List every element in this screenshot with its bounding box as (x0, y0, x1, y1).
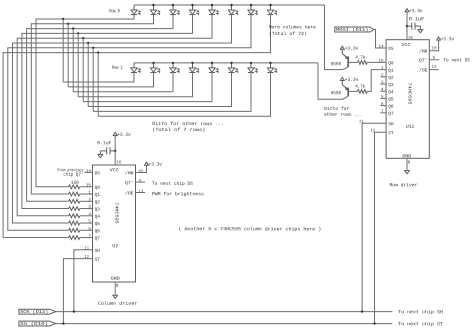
svg-text:( Another 8 x 74HC595 column d: ( Another 8 x 74HC595 column driver chip… (178, 226, 321, 232)
junction col 6 row0/row1 tie (92, 47, 94, 49)
wire resistor to U2 Q7 (80, 237, 93, 239)
svg-text:Row 0: Row 0 (109, 8, 120, 14)
wire row 1 col 0 cathode step (63, 73, 134, 83)
wire row 1 bus drop to transistor Q2 collector (318, 63, 348, 99)
svg-text:Q0: Q0 (95, 185, 101, 191)
wire resistor to U2 Q6 (80, 229, 93, 231)
wire col 0 vertical to row 1 (62, 19, 64, 82)
wire col 7 vertical to row 1 (97, 53, 99, 117)
junction row 0 bus (211, 4, 213, 6)
power +3.3v U11 MR (437, 37, 441, 40)
svg-text:4.7k: 4.7k (355, 55, 365, 61)
svg-text:4.7k: 4.7k (355, 84, 365, 90)
junction U11 ST on SS (373, 322, 375, 324)
LED D3 row 0 col 2 (172, 5, 174, 10)
resistor R1 150 (69, 185, 80, 189)
svg-text:Q5: Q5 (388, 96, 394, 102)
wire resistor to U2 Q2 (80, 200, 93, 202)
wire col 6 vertical to row 1 (92, 48, 94, 112)
resistor R2 150 (69, 192, 80, 196)
LED D16 row 1 col 7 (270, 63, 272, 68)
wire row 0 col 1 cathode step (31, 15, 153, 194)
wire MOSI to U11 DS (374, 30, 387, 49)
svg-text:/MR: /MR (125, 170, 134, 176)
wire 4.7k to U11 Q0 (367, 61, 386, 63)
svg-text:Q0: Q0 (388, 60, 394, 66)
ground U11 (405, 171, 410, 174)
junction col 0 row0/row1 tie (62, 18, 64, 20)
wire row 1 col 5 cathode step (88, 73, 231, 107)
resistor R9 4.7k (358, 61, 368, 65)
svg-text:+3.3v: +3.3v (345, 46, 359, 52)
svg-text:Q7': Q7' (125, 180, 134, 186)
resistor R7 150 (69, 228, 80, 232)
wire row 1 anode bus (134, 62, 318, 64)
LED D6 row 0 col 5 (231, 5, 233, 10)
wire U11 ST to SS bus (375, 132, 387, 323)
svg-text:ST: ST (388, 130, 394, 136)
svg-text:Q6: Q6 (95, 228, 101, 234)
svg-text:Q3: Q3 (388, 82, 394, 88)
power +3.3v U11 VCC (405, 9, 409, 12)
svg-text:Q1: Q1 (95, 192, 101, 198)
junction row 1 bus (269, 62, 271, 64)
svg-text:Row driver: Row driver (389, 182, 417, 188)
LED D15 row 1 col 6 (250, 63, 252, 68)
junction col 2 row0/row1 tie (72, 27, 74, 29)
svg-text:U2: U2 (112, 243, 118, 249)
svg-text:16: 16 (116, 161, 122, 165)
svg-text:Column driver: Column driver (98, 301, 138, 307)
svg-text:Q3: Q3 (95, 207, 101, 213)
resistor R8 150 (69, 236, 80, 240)
junction row 0 bus (152, 4, 154, 6)
wire row 0 col 4 cathode step (17, 15, 212, 216)
svg-text:15: 15 (378, 60, 384, 64)
svg-text:ST: ST (95, 257, 101, 263)
wire row 0 col 6 cathode step (8, 15, 251, 231)
LED D9 row 1 col 0 (133, 63, 135, 68)
LED D10 row 1 col 1 (153, 63, 155, 68)
LED D12 row 1 col 3 (192, 63, 194, 68)
LED D5 row 0 col 4 (211, 5, 213, 10)
svg-text:To next chip SH: To next chip SH (398, 309, 443, 315)
wire row 0 col 5 cathode step (13, 15, 232, 223)
wire T2 base (348, 90, 357, 92)
resistor R5 150 (69, 214, 80, 218)
junction row 1 bus (172, 62, 174, 64)
svg-text:Q7: Q7 (388, 111, 394, 117)
svg-text:chip Q7': chip Q7' (63, 172, 83, 178)
svg-text:8550: 8550 (331, 61, 342, 67)
junction col 3 row0/row1 tie (77, 32, 79, 34)
svg-text:DS: DS (388, 46, 394, 52)
U2 pin 16 VCC (114, 136, 116, 165)
svg-text:+3.3v: +3.3v (117, 132, 131, 138)
LED D4 row 0 col 3 (192, 5, 194, 10)
junction row 0 bus (191, 4, 193, 6)
svg-text:(Total of 72): (Total of 72) (269, 31, 307, 37)
svg-text:GND: GND (111, 276, 120, 282)
svg-text:Q1: Q1 (388, 68, 394, 74)
svg-text:14: 14 (378, 45, 384, 49)
junction U2 ST on SS (62, 322, 64, 324)
svg-text:VCC: VCC (401, 42, 410, 48)
op-amp U11 74HC595 row driver box (386, 40, 429, 159)
junction U2 SH on SCK (73, 310, 75, 312)
svg-text:/OE: /OE (419, 67, 428, 73)
ground U2 (113, 295, 118, 298)
svg-text:To next DS: To next DS (443, 57, 470, 63)
wire resistor to U2 Q1 (80, 193, 93, 195)
svg-text:+3.3v: +3.3v (345, 77, 359, 83)
wire U11 SH to SCK bus (362, 123, 386, 311)
svg-text:0.1uF: 0.1uF (97, 140, 111, 146)
svg-text:SH: SH (95, 248, 101, 254)
svg-text:Q4: Q4 (95, 214, 101, 220)
svg-text:8550: 8550 (331, 90, 342, 96)
svg-text:+3.3v: +3.3v (409, 8, 423, 14)
svg-text:11: 11 (84, 247, 90, 251)
svg-text:11: 11 (359, 120, 365, 124)
svg-text:Q4: Q4 (388, 89, 394, 95)
wire row 1 col 2 cathode step (73, 73, 173, 92)
LED D8 row 0 col 7 (270, 5, 272, 10)
junction row 0 bus (172, 4, 174, 6)
svg-text:74HC595: 74HC595 (114, 202, 120, 224)
svg-text:Q7: Q7 (95, 236, 101, 242)
svg-text:To next chip ST: To next chip ST (398, 321, 443, 327)
svg-text:/OE: /OE (125, 190, 134, 196)
svg-text:16: 16 (408, 37, 414, 41)
wire row 0 col 7 cathode step (3, 15, 270, 238)
svg-text:More columns here: More columns here (269, 24, 316, 30)
svg-text:+3.3v: +3.3v (441, 36, 455, 42)
svg-text:SH: SH (388, 121, 394, 127)
junction row 1 bus (250, 62, 252, 64)
junction U11 vcc cap (406, 25, 408, 27)
LED D2 row 0 col 1 (153, 5, 155, 10)
svg-text:0.1uF: 0.1uF (409, 16, 425, 22)
svg-text:MOSI (D11): MOSI (D11) (336, 27, 369, 33)
wire row 0 col 0 cathode step (36, 15, 134, 187)
capacitor C11 0.1uF (407, 25, 412, 27)
LED D11 row 1 col 2 (172, 63, 174, 68)
resistor R6 150 (69, 221, 80, 225)
wire U2 ST to SS bus (63, 259, 92, 324)
junction row 1 bus (230, 62, 232, 64)
wire resistor to U2 Q0 (80, 186, 93, 188)
junction row 1 bus (211, 62, 213, 64)
svg-text:Ditto for: Ditto for (324, 106, 349, 112)
svg-text:other rows ...: other rows ... (324, 112, 363, 118)
net flag MOSI (D11) (335, 27, 374, 32)
wire row 1 col 3 cathode step (78, 73, 192, 97)
svg-text:Q5: Q5 (95, 221, 101, 227)
transistor Q2 8550 row 1 (341, 82, 343, 85)
wire 4.7k to U11 Q1 (367, 70, 386, 92)
svg-text:150: 150 (71, 180, 79, 186)
junction row 1 bus (191, 62, 193, 64)
svg-text:+3.3v: +3.3v (148, 162, 162, 168)
svg-text:SS (D10): SS (D10) (20, 321, 48, 327)
wire row 0 anode bus (134, 4, 325, 6)
wire col 4 vertical to row 1 (82, 38, 84, 101)
wire row 0 col 2 cathode step (27, 15, 173, 202)
power +3.3v U2 MR (145, 162, 149, 165)
wire row 1 col 4 cathode step (83, 73, 212, 102)
resistor R4 150 (69, 207, 80, 211)
svg-text:14: 14 (86, 170, 92, 174)
svg-text:15: 15 (86, 184, 92, 188)
wire row 1 col 6 cathode step (93, 73, 251, 112)
junction row 0 bus (269, 4, 271, 6)
svg-text:U11: U11 (406, 124, 415, 130)
svg-text:/MR: /MR (419, 49, 428, 55)
ground U11 cap (418, 30, 423, 33)
svg-text:To next chip DS: To next chip DS (152, 181, 193, 187)
svg-text:Q2: Q2 (95, 199, 101, 205)
wire resistor to U2 Q3 (80, 208, 93, 210)
junction col 1 row0/row1 tie (67, 23, 69, 25)
resistor R10 4.7k (358, 90, 368, 94)
wire T1 base (348, 61, 357, 63)
ground U2 cap (98, 155, 103, 158)
LED D7 row 0 col 6 (250, 5, 252, 10)
wire row 1 col 1 cathode step (68, 73, 153, 87)
wire resistor to U2 Q4 (80, 215, 93, 217)
svg-text:12: 12 (84, 256, 90, 260)
U11 pin 16 VCC (406, 12, 408, 40)
wire col 5 vertical to row 1 (87, 43, 89, 107)
wire SCK bus (56, 311, 393, 313)
junction col 4 row0/row1 tie (82, 37, 84, 39)
junction U11 SH on SCK (361, 310, 363, 312)
wire col 1 vertical to row 1 (67, 24, 69, 87)
junction row 0 bus (230, 4, 232, 6)
net flag SS (D10) (19, 321, 56, 326)
svg-text:Q7': Q7' (419, 58, 428, 64)
svg-text:Q2: Q2 (388, 75, 394, 81)
wire SS bus (56, 323, 393, 325)
svg-text:Row 1: Row 1 (112, 65, 123, 71)
wire col 2 vertical to row 1 (72, 29, 74, 92)
wire row 0 bus drop to transistor Q1 collector (325, 5, 349, 70)
wire resistor to U2 Q5 (80, 222, 93, 224)
junction col 5 row0/row1 tie (87, 42, 89, 44)
LED D13 row 1 col 4 (211, 63, 213, 68)
svg-text:DS: DS (95, 170, 101, 176)
junction col 7 row0/row1 tie (97, 51, 99, 53)
resistor R3 150 (69, 199, 80, 203)
junction row 1 bus (152, 62, 154, 64)
svg-text:VCC: VCC (110, 167, 119, 173)
svg-text:SCK (D13): SCK (D13) (20, 309, 48, 315)
wire row 1 col 7 cathode step (98, 73, 270, 117)
svg-text:(Total of 7 rows): (Total of 7 rows) (152, 127, 205, 133)
svg-text:74HC595: 74HC595 (406, 83, 412, 105)
transistor Q1 8550 row 0 (341, 51, 343, 54)
junction row 0 bus (250, 4, 252, 6)
power +3.3v T2 emitter (340, 77, 344, 80)
capacitor C2 0.1uF (110, 150, 115, 152)
junction U2 vcc cap (114, 150, 116, 152)
wire U2 SH to SCK bus (74, 250, 93, 312)
svg-text:PWM for brightness: PWM for brightness (152, 191, 204, 197)
power +3.3v T1 emitter (340, 46, 344, 49)
svg-text:Ditto for other rows ...: Ditto for other rows ... (152, 121, 224, 127)
LED D1 row 0 col 0 (133, 5, 135, 10)
op-amp U2 74HC595 column driver box (93, 165, 136, 282)
wire col 3 vertical to row 1 (77, 33, 79, 96)
LED D14 row 1 col 5 (231, 63, 233, 68)
wire row 0 col 3 cathode step (22, 15, 193, 209)
svg-text:Q6: Q6 (388, 104, 394, 110)
net flag SCK (D13) (19, 309, 56, 314)
power +3.3v U2 VCC (113, 132, 117, 135)
